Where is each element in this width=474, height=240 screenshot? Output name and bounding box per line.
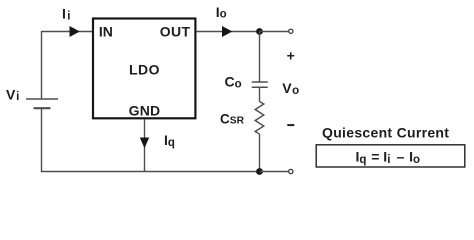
resistor CSR zigzag — [255, 102, 264, 135]
svg-text:Io: Io — [216, 4, 227, 21]
svg-text:GND: GND — [129, 103, 161, 119]
svg-text:+: + — [287, 47, 295, 63]
node bottom junction dot — [256, 168, 263, 175]
wire to bottom terminal — [260, 171, 289, 173]
wire output horizontal — [196, 31, 260, 33]
wire capacitor to resistor — [259, 87, 261, 101]
wire bottom horizontal — [41, 171, 260, 173]
arrowhead Io output current — [222, 26, 232, 37]
svg-text:CSR: CSR — [220, 112, 245, 127]
terminal Vo+ open circle — [289, 29, 293, 33]
wire left vertical lower — [41, 108, 43, 171]
LDO regulator U1 box — [93, 19, 195, 119]
arrowhead Ii input current — [70, 26, 80, 37]
svg-text:LDO: LDO — [129, 62, 160, 78]
label minus sign — [287, 124, 294, 126]
svg-text:Iq: Iq — [164, 132, 175, 149]
battery Vi short plate — [34, 107, 51, 109]
svg-text:Vi: Vi — [6, 86, 19, 103]
wire left vertical upper — [41, 31, 43, 99]
node output junction dot — [256, 28, 263, 35]
svg-text:OUT: OUT — [160, 24, 191, 40]
capacitor Co bottom plate — [252, 86, 268, 88]
battery Vi long plate — [26, 98, 58, 100]
wire GND vertical — [144, 119, 146, 172]
capacitor Co top plate — [252, 81, 268, 83]
svg-text:Ii: Ii — [62, 6, 70, 23]
wire to output terminal — [260, 31, 289, 33]
svg-text:IN: IN — [99, 24, 113, 40]
equation box — [316, 145, 465, 167]
terminal Vo- open circle — [289, 169, 293, 173]
wire resistor to bottom node — [259, 134, 261, 172]
arrowhead Iq ground current — [140, 138, 149, 149]
wire output to capacitor — [259, 32, 261, 83]
svg-text:Co: Co — [225, 74, 242, 91]
svg-text:Vo: Vo — [282, 80, 299, 97]
svg-text:Quiescent Current: Quiescent Current — [322, 124, 449, 140]
wire input top horizontal — [42, 31, 94, 33]
